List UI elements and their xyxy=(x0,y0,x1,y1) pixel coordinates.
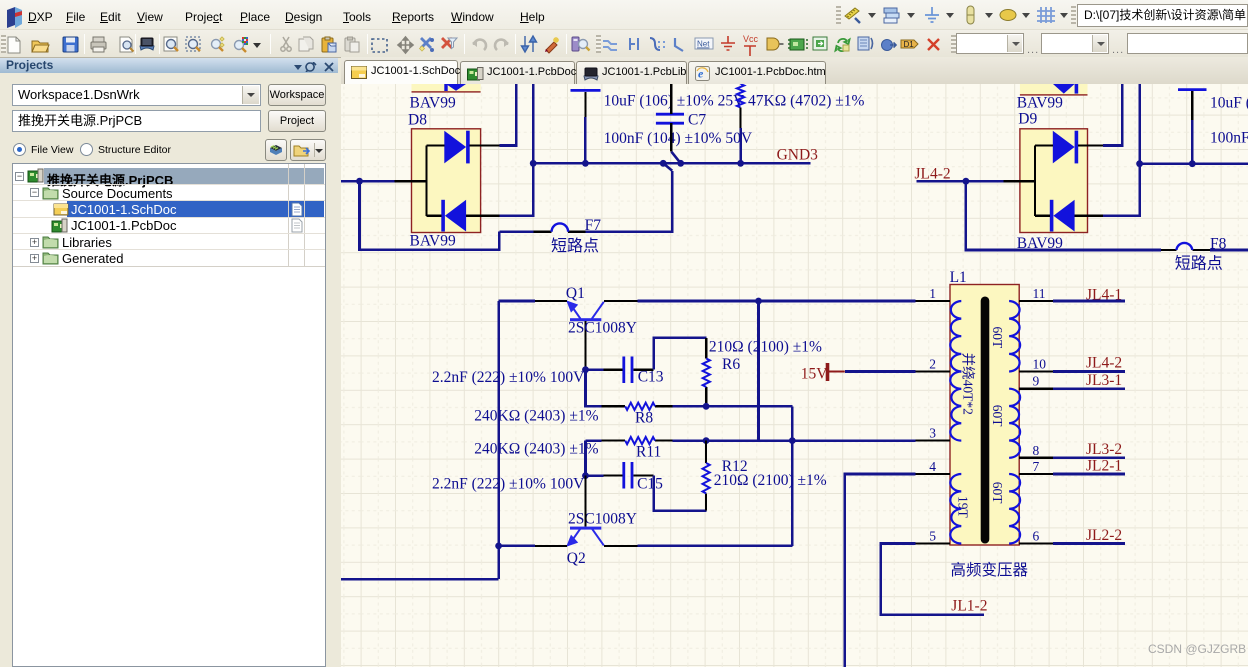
svg-text:JL1-2: JL1-2 xyxy=(951,598,987,615)
sheet background xyxy=(341,84,1248,667)
svg-text:100nF (104) ±10% 50V: 100nF (104) ±10% 50V xyxy=(604,130,753,147)
diode D9-B (bottom) xyxy=(1050,200,1075,232)
tree icons xyxy=(27,168,45,185)
wire collector rail down xyxy=(757,301,760,441)
wire JL4-2 down to F8 xyxy=(966,181,1161,250)
DXP logo xyxy=(7,7,22,28)
svg-text:5: 5 xyxy=(929,529,936,544)
winding L1 primary upper (pins 1-2) xyxy=(950,301,961,372)
wire Q1 collector rail xyxy=(637,300,915,303)
svg-text:并绕40T*2: 并绕40T*2 xyxy=(961,353,976,415)
diode pair D7 (cut off at top) xyxy=(412,84,481,93)
transistor Q2 (2SC1008Y) xyxy=(566,527,604,547)
resistor R11 (240KΩ) xyxy=(601,440,672,442)
svg-text:10uF (106) ±10% 25V: 10uF (106) ±10% 25V xyxy=(604,93,745,110)
wire GND3 net xyxy=(533,162,811,165)
wire F8 right xyxy=(1210,249,1248,252)
svg-text:Q2: Q2 xyxy=(567,550,586,567)
row1 path box xyxy=(1077,4,1248,27)
svg-text:60T: 60T xyxy=(990,482,1005,505)
svg-text:JL2-2: JL2-2 xyxy=(1086,527,1122,544)
svg-text:2.2nF (222) ±10% 100V: 2.2nF (222) ±10% 100V xyxy=(432,369,585,386)
svg-text:JL4-2: JL4-2 xyxy=(1086,355,1122,372)
svg-text:R11: R11 xyxy=(636,444,661,461)
wire JL3-1 xyxy=(1053,387,1125,390)
wire JL3-2 xyxy=(1053,456,1125,459)
svg-text:Vcc: Vcc xyxy=(743,34,759,44)
diode pair D8 body xyxy=(412,129,481,233)
svg-text:GND3: GND3 xyxy=(777,147,819,164)
wire C6 pin to GND wire xyxy=(584,117,587,163)
diode D8-A (top) xyxy=(444,131,469,164)
svg-text:3: 3 xyxy=(929,426,936,441)
svg-text:210Ω (2100) ±1%: 210Ω (2100) ±1% xyxy=(709,339,822,356)
wire C15 to R12 bottom xyxy=(654,476,707,511)
fuse F8 (short-circuit point) xyxy=(1161,249,1210,251)
svg-text:11: 11 xyxy=(1033,286,1046,301)
svg-text:高频变压器: 高频变压器 xyxy=(951,561,1029,579)
wire D8 bottom diode to vertical xyxy=(499,84,533,216)
wire down from D8 common junction xyxy=(360,181,500,249)
junction GND3-47K xyxy=(737,160,744,167)
wire Q1 base down xyxy=(586,370,602,407)
svg-text:6: 6 xyxy=(1033,529,1040,544)
svg-text:BAV99: BAV99 xyxy=(410,233,456,250)
diode pair D9 body xyxy=(1020,129,1088,233)
capacitor C6 (10uF, cut off at top) xyxy=(571,89,601,92)
Q2 pins xyxy=(535,476,637,546)
D8 pins (black) xyxy=(395,146,500,216)
svg-text:1: 1 xyxy=(929,286,936,301)
junction collector rail xyxy=(755,298,762,305)
diode D8-B (bottom) xyxy=(441,200,466,232)
wire Q2 emitter rail xyxy=(499,545,535,548)
wire JL4-1 xyxy=(1053,300,1125,303)
Q1 pins xyxy=(535,301,637,370)
junction left rail xyxy=(495,543,502,550)
power port 15V xyxy=(826,363,830,381)
junction GND3-C7 xyxy=(677,160,684,167)
svg-text:240KΩ (2403) ±1%: 240KΩ (2403) ±1% xyxy=(474,408,598,425)
capacitor C13 (2.2nF) xyxy=(624,357,632,384)
junction GND3-F7 xyxy=(660,160,667,167)
winding L1 secondary 60T (pins 9-8) xyxy=(1009,389,1020,458)
junction R11-R12 xyxy=(703,437,710,444)
svg-text:JL4-1: JL4-1 xyxy=(1086,287,1122,304)
svg-text:19T: 19T xyxy=(956,496,971,519)
diode D9-A (top) xyxy=(1053,131,1078,164)
wire R8 to R6 junction xyxy=(672,405,792,408)
resistor R8 (240KΩ) xyxy=(601,405,672,407)
wire JL4-2 to D9 xyxy=(917,180,1004,183)
junction JL4-2 xyxy=(963,178,970,185)
junction GND3-C6 xyxy=(582,160,589,167)
transformer core xyxy=(981,297,990,544)
svg-text:8: 8 xyxy=(1033,443,1040,458)
svg-text:210Ω (2100) ±1%: 210Ω (2100) ±1% xyxy=(714,472,827,489)
wire Q2 collector rail xyxy=(637,545,792,548)
junction GND right vertical xyxy=(1136,160,1143,167)
junction Q2 base C15 xyxy=(582,472,589,479)
wire R11 left xyxy=(586,439,602,442)
svg-text:L1: L1 xyxy=(950,269,967,286)
wire Q1 emitter rail xyxy=(499,300,535,303)
svg-text:2SC1008Y: 2SC1008Y xyxy=(568,319,637,336)
row2 icons xyxy=(8,37,20,53)
svg-text:D9: D9 xyxy=(1018,111,1037,128)
svg-text:D1: D1 xyxy=(904,40,915,49)
fuse F7 (short-circuit point) xyxy=(534,231,586,233)
L1 right pins xyxy=(1019,301,1053,544)
svg-text:Q1: Q1 xyxy=(566,285,585,302)
D9 pins xyxy=(1003,146,1103,216)
svg-text:100nF: 100nF xyxy=(1210,130,1248,147)
wire D8 top diode to vertical xyxy=(499,84,516,146)
wire C8 to GND right xyxy=(1191,120,1194,164)
svg-text:9: 9 xyxy=(1033,374,1040,389)
svg-text:短路点: 短路点 xyxy=(1175,255,1223,273)
wire D9 top diode up xyxy=(1103,84,1122,146)
right column grid xyxy=(288,164,289,267)
junction R8-R6 xyxy=(703,403,710,410)
wire C13 to R6 top xyxy=(654,338,707,370)
capacitor C7 xyxy=(656,114,684,123)
wire R8 elbow down xyxy=(791,406,794,546)
svg-text:C7: C7 xyxy=(688,112,706,129)
transistor Q1 (2SC1008Y) xyxy=(566,300,604,321)
wire 47K to GND wire xyxy=(739,128,742,163)
winding L1 feedback 19T (pins 4-5) xyxy=(950,474,961,544)
diode pair (cut off) above D9 xyxy=(1020,84,1088,96)
svg-text:2.2nF (222) ±10% 100V: 2.2nF (222) ±10% 100V xyxy=(432,476,585,493)
svg-text:2SC1008Y: 2SC1008Y xyxy=(568,511,637,528)
svg-text:短路点: 短路点 xyxy=(551,237,599,255)
row1 right icons xyxy=(845,8,860,23)
wire F7 right segment xyxy=(585,171,672,232)
wire pin5 to JL1-2 xyxy=(881,544,984,615)
wire D8 common to left edge xyxy=(341,180,395,183)
wire GND right xyxy=(1140,162,1248,165)
toolbar furniture xyxy=(0,0,1248,58)
resistor R12 (210Ω) xyxy=(705,441,707,511)
winding L1 secondary 60T (pins 11-10) xyxy=(1009,301,1020,372)
svg-text:Net: Net xyxy=(697,40,710,49)
L1 left pins xyxy=(916,301,951,544)
transformer L1 body xyxy=(950,285,1019,546)
winding L1 primary lower (pins 2-3) xyxy=(950,372,961,441)
wire C15 left xyxy=(586,474,604,477)
junction at D8 common xyxy=(356,178,363,185)
svg-text:60T: 60T xyxy=(990,327,1005,350)
wire D9 bottom diode up xyxy=(1103,84,1140,216)
wire JL2-2 xyxy=(1053,542,1125,545)
svg-text:47KΩ (4702) ±1%: 47KΩ (4702) ±1% xyxy=(748,93,865,110)
svg-text:2: 2 xyxy=(929,357,936,372)
wire jog to GND net xyxy=(663,163,672,171)
wire bottom left xyxy=(341,578,499,581)
svg-text:R8: R8 xyxy=(635,410,653,427)
wire R11 to transformer pin3 xyxy=(672,439,915,442)
wire F7 left segment xyxy=(499,230,533,233)
svg-text:C15: C15 xyxy=(637,476,663,493)
capacitor C8 (10uF, cut off at top right) xyxy=(1178,88,1207,91)
capacitor C15 (2.2nF) xyxy=(624,462,632,489)
winding L1 secondary 60T (pins 7-6) xyxy=(1009,474,1020,544)
svg-text:10: 10 xyxy=(1033,357,1047,372)
svg-text:15V: 15V xyxy=(801,366,829,383)
wire C7 jog to GND net xyxy=(671,152,680,164)
wire JL2-1 xyxy=(1053,473,1125,476)
svg-text:D8: D8 xyxy=(408,112,427,129)
svg-text:60T: 60T xyxy=(990,405,1005,428)
separators / grips row2 xyxy=(84,34,85,54)
resistor R5 47K (cut off at top) xyxy=(737,84,744,107)
junction pin3 node xyxy=(789,437,796,444)
wire 15V to pin2 xyxy=(845,370,916,373)
svg-text:240KΩ (2403) ±1%: 240KΩ (2403) ±1% xyxy=(474,441,598,458)
svg-text:BAV99: BAV99 xyxy=(1017,95,1063,112)
junction GND right C8 xyxy=(1189,160,1196,167)
wire Q2 base up xyxy=(584,441,587,476)
doc status icons xyxy=(291,202,303,217)
wire Q1 base to C13 xyxy=(586,368,604,371)
junction GND3-D8 xyxy=(530,160,537,167)
wire JL4-2 right xyxy=(1053,370,1125,373)
svg-text:7: 7 xyxy=(1033,459,1040,474)
svg-text:JL3-1: JL3-1 xyxy=(1086,372,1122,389)
svg-text:10uF (: 10uF ( xyxy=(1210,95,1248,112)
svg-text:BAV99: BAV99 xyxy=(410,95,456,112)
wire left rail vertical xyxy=(497,301,500,579)
svg-text:4: 4 xyxy=(929,459,936,474)
svg-text:JL3-2: JL3-2 xyxy=(1086,441,1122,458)
resistor R6 (210Ω) xyxy=(705,338,707,406)
wire pin4 to bottom edge xyxy=(845,474,916,667)
svg-text:C13: C13 xyxy=(638,369,664,386)
junction Q1 base C13 xyxy=(582,366,589,373)
svg-text:R6: R6 xyxy=(722,356,740,373)
svg-text:JL2-1: JL2-1 xyxy=(1086,458,1122,475)
row2 combos xyxy=(956,33,1024,54)
